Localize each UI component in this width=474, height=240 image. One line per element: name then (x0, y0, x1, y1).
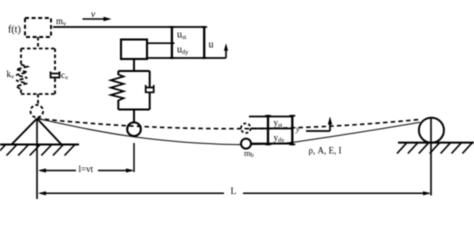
svg-text:u: u (209, 40, 214, 51)
svg-text:f(t): f(t) (8, 25, 21, 36)
svg-text:l=vt: l=vt (79, 164, 94, 174)
svg-text:ρ, A, E, I: ρ, A, E, I (309, 146, 342, 156)
svg-text:y: y (295, 125, 300, 134)
svg-text:L: L (231, 187, 237, 197)
